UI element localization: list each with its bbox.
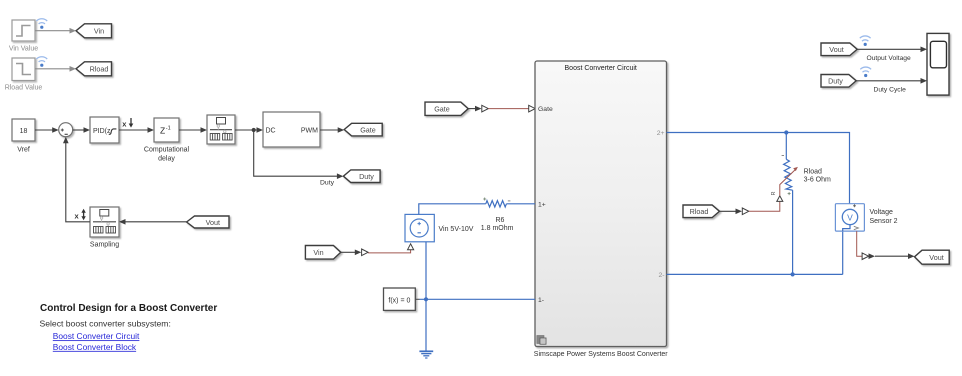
svg-text:Vout: Vout: [206, 218, 220, 227]
svg-text:Select boost converter subsyst: Select boost converter subsystem:: [40, 319, 171, 329]
svg-text:Boost Converter Circuit: Boost Converter Circuit: [565, 65, 637, 72]
svg-text:1.8 mOhm: 1.8 mOhm: [481, 225, 514, 232]
svg-text:Vin Value: Vin Value: [9, 46, 38, 53]
svg-text:18: 18: [20, 128, 28, 135]
svg-text:Control Design for a Boost Con: Control Design for a Boost Converter: [40, 303, 217, 314]
svg-text:-1: -1: [166, 125, 171, 131]
svg-text:Z: Z: [160, 126, 165, 136]
svg-text:Vout: Vout: [929, 253, 943, 262]
svg-text:PWM: PWM: [301, 127, 318, 134]
svg-text:Boost Converter Block: Boost Converter Block: [53, 342, 137, 352]
svg-text:Computational: Computational: [144, 147, 190, 154]
svg-text:3-6 Ohm: 3-6 Ohm: [804, 177, 831, 184]
svg-text:Sampling: Sampling: [90, 242, 119, 249]
svg-text:delay: delay: [158, 156, 175, 163]
svg-text:Rload: Rload: [690, 207, 709, 216]
svg-text:Rload Value: Rload Value: [5, 85, 43, 92]
svg-text:Sensor 2: Sensor 2: [870, 218, 898, 225]
svg-text:Simscape Power Systems Boost C: Simscape Power Systems Boost Converter: [534, 351, 668, 358]
svg-text:Voltage: Voltage: [870, 209, 893, 216]
svg-text:DC: DC: [266, 127, 276, 134]
svg-text:2+: 2+: [657, 130, 665, 137]
svg-text:Vin: Vin: [313, 248, 323, 257]
svg-text:Gate: Gate: [360, 125, 376, 134]
svg-text:Gate: Gate: [538, 106, 553, 113]
svg-text:Vref: Vref: [17, 147, 30, 154]
svg-text:Rload: Rload: [90, 65, 109, 74]
svg-text:Duty: Duty: [320, 179, 335, 186]
svg-text:Rload: Rload: [804, 169, 822, 176]
svg-text:Gate: Gate: [434, 105, 450, 114]
svg-text:Duty: Duty: [828, 77, 843, 86]
svg-text:R6: R6: [496, 217, 505, 224]
svg-text:Boost Converter Circuit: Boost Converter Circuit: [53, 331, 140, 341]
svg-text:1-: 1-: [538, 297, 544, 304]
svg-text:V: V: [847, 212, 853, 222]
svg-text:f(x) = 0: f(x) = 0: [388, 297, 410, 304]
svg-text:Vout: Vout: [829, 45, 843, 54]
svg-text:1+: 1+: [538, 201, 546, 208]
svg-text:Duty Cycle: Duty Cycle: [874, 87, 907, 94]
svg-text:Duty: Duty: [359, 172, 374, 181]
svg-text:Vin 5V-10V: Vin 5V-10V: [439, 226, 474, 233]
svg-text:Output Voltage: Output Voltage: [867, 55, 912, 62]
svg-text:Vin: Vin: [94, 27, 104, 36]
svg-text:R: R: [771, 192, 777, 196]
svg-text:PID(z: PID(z: [93, 128, 111, 135]
svg-text:2-: 2-: [658, 272, 664, 279]
